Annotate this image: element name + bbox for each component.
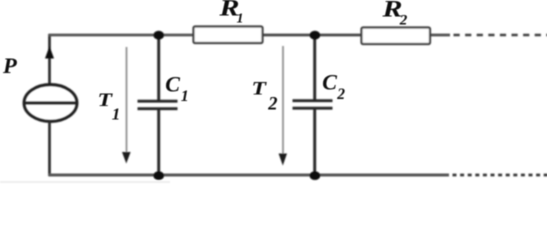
wire top-left vertical (source to top rail) — [48, 34, 51, 84]
wire top rail left segment — [49, 34, 195, 37]
node top-right junction — [310, 31, 321, 40]
wire top rail middle segment (R1 to R2) — [262, 34, 362, 37]
capacitor C2 top lead — [313, 35, 316, 100]
capacitor C2 plates — [293, 101, 333, 109]
resistor R2 body — [362, 28, 431, 45]
svg-text:T: T — [252, 79, 268, 100]
wire bottom-left vertical (source to bottom rail) — [48, 121, 51, 176]
resistor R1 body — [194, 27, 263, 44]
svg-text:2: 2 — [399, 13, 408, 29]
capacitor C1 top lead — [157, 35, 160, 101]
current source P horizontal bar — [24, 102, 77, 105]
faint scan artifact line bottom-left — [0, 181, 170, 183]
svg-text:1: 1 — [237, 12, 244, 27]
capacitor C2 bottom lead — [313, 109, 316, 175]
current source P ellipse — [24, 85, 77, 122]
node bottom-left junction — [153, 171, 164, 180]
node bottom-right junction — [310, 171, 321, 180]
svg-text:1: 1 — [181, 88, 189, 105]
svg-text:C: C — [165, 72, 180, 97]
dashed wire top right — [454, 34, 547, 37]
capacitor C1 plates — [138, 101, 178, 109]
dashed wire bottom right — [453, 174, 547, 177]
svg-text:2: 2 — [267, 95, 277, 115]
heat flow arrow T1 — [122, 47, 131, 164]
current direction arrowhead of source P — [45, 46, 54, 59]
svg-text:2: 2 — [336, 86, 345, 103]
capacitor C1 bottom lead — [157, 110, 160, 175]
svg-text:1: 1 — [112, 105, 121, 124]
heat flow arrow T2 — [279, 46, 287, 166]
svg-text:P: P — [2, 53, 17, 78]
node top-left junction — [153, 31, 164, 40]
wire bottom rail — [49, 174, 450, 177]
wire top rail right stub after R2 — [429, 34, 450, 37]
svg-text:C: C — [322, 70, 337, 95]
